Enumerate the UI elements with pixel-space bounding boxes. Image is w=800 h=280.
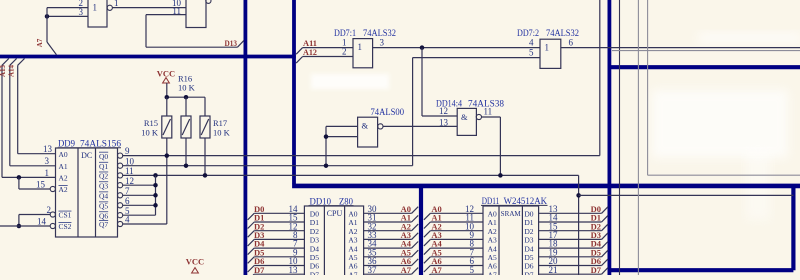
svg-text:D5: D5 <box>310 253 319 262</box>
svg-text:1: 1 <box>358 42 363 52</box>
wire VCC down to pullup rail <box>166 83 168 97</box>
svg-text:D4: D4 <box>310 244 319 253</box>
bus entry A7 (right of DD10) <box>412 268 419 275</box>
bus entry D7 (left of DD10) <box>248 274 255 280</box>
wire net Q2 (DD9 pin11 to x=578) <box>123 174 579 176</box>
DD9 output bubble Q4 <box>118 193 123 198</box>
DD9 pin 6 wire <box>123 204 156 206</box>
resistor R17 <box>200 116 210 138</box>
svg-text:A1: A1 <box>59 162 68 171</box>
svg-text:9: 9 <box>125 146 130 156</box>
svg-text:12: 12 <box>439 106 448 116</box>
svg-text:A6: A6 <box>348 262 357 271</box>
svg-text:A7: A7 <box>431 265 442 275</box>
svg-text:D0: D0 <box>310 210 319 219</box>
bus entry D0 (right of DD11) <box>602 207 608 214</box>
wire net Q1 (DD9 pin10 to x=412) <box>123 165 413 167</box>
chip DD9 body <box>56 148 118 237</box>
bus: vertical data bus right of DD11 (x=609) <box>608 0 612 275</box>
junction Q2/tie vertical <box>153 173 158 178</box>
wire DD11 A5 <box>430 256 483 258</box>
svg-text:74ALS00: 74ALS00 <box>371 108 405 118</box>
svg-text:6: 6 <box>125 196 130 206</box>
svg-text:Q6: Q6 <box>99 211 108 220</box>
svg-text:1: 1 <box>114 0 119 8</box>
svg-text:A1: A1 <box>348 218 357 227</box>
junction Q2 branch right <box>576 193 581 198</box>
wire tie /CS1 to /CS2 <box>18 215 20 227</box>
svg-text:10 K: 10 K <box>141 128 159 138</box>
junction input tie <box>324 134 329 139</box>
wire net Q1 horizontal to DD7:2 pin 5 <box>413 57 540 59</box>
svg-text:5: 5 <box>470 265 475 275</box>
chip DD9 inner dividers <box>77 148 79 237</box>
gate DD7:1 body <box>353 39 373 68</box>
wire DD10 D1 <box>254 221 304 223</box>
svg-text:A7: A7 <box>36 38 44 47</box>
wire long vertical x=619.5 <box>619 0 621 275</box>
wire DD11 D0 <box>539 212 602 214</box>
bus entry D2 (left of DD10) <box>248 231 255 238</box>
DD9 pin 5 wire <box>123 214 156 216</box>
svg-text:3: 3 <box>45 156 50 166</box>
gray horizontal line y=50.6 <box>612 50 800 52</box>
bus entry A6 (right of DD10) <box>412 259 419 266</box>
svg-text:Q1: Q1 <box>99 162 108 171</box>
bus entry D1 (right of DD11) <box>602 215 608 222</box>
wire DD11 A3 <box>430 238 483 240</box>
wire pullup rail horizontal <box>167 96 205 98</box>
wire DD11 D5 <box>539 256 602 258</box>
svg-text:74ALS32: 74ALS32 <box>546 29 579 39</box>
svg-text:4: 4 <box>125 215 130 225</box>
junction rail/R16 <box>184 95 189 100</box>
svg-text:Q5: Q5 <box>99 202 108 211</box>
svg-text:D4: D4 <box>524 244 533 253</box>
gate G1 output bubble <box>107 5 112 10</box>
bus entry A0 (right of DD10) <box>412 207 419 214</box>
bus entry A0 (left of DD11) <box>424 213 431 220</box>
svg-text:R17: R17 <box>213 118 227 128</box>
svg-text:11: 11 <box>125 166 134 176</box>
wire DD10 D4 <box>254 247 304 249</box>
DD9 pin 7 wire <box>123 194 156 196</box>
bus entry A2 (left of DD11) <box>424 231 431 238</box>
wire vertical x=17.7 down to DD9 pin 13 <box>17 65 19 153</box>
svg-text:D6: D6 <box>310 262 319 271</box>
svg-text:CS1: CS1 <box>59 211 72 220</box>
chip DD10 inner dividers <box>323 206 325 275</box>
wire tie Q2..Q6 vertical <box>155 175 157 215</box>
wire DD14:4 pin 11 output <box>482 116 501 118</box>
wire DD11 A1 <box>430 221 483 223</box>
wire net Q0 (DD9 pin9 to far right) <box>123 155 600 157</box>
chip DD11 body <box>483 206 539 280</box>
wire 74ALS00 input 2 <box>326 136 358 138</box>
gate DD14:4 body <box>457 108 476 135</box>
bus entry D13 (diagonal) <box>238 41 244 48</box>
VCC triangle (bottom) <box>192 268 199 273</box>
wire vertical from pin 11 down <box>145 15 147 48</box>
svg-text:21: 21 <box>549 265 558 275</box>
DD9 pin 12 wire <box>123 184 156 186</box>
wire DD11 D4 <box>539 247 602 249</box>
bus entry A1 (left of DD11) <box>424 222 431 229</box>
svg-text:VCC: VCC <box>186 257 204 267</box>
junction on G1 input wires <box>45 14 50 19</box>
junction rail/R15 <box>165 95 170 100</box>
wire DD7:1 pin 1 <box>303 47 353 49</box>
wire net Q2 horizontal to right bus <box>579 194 794 196</box>
svg-text:15: 15 <box>36 179 46 189</box>
svg-text:A0: A0 <box>488 210 497 219</box>
bus entry D5 (left of DD10) <box>248 257 255 264</box>
svg-text:D6: D6 <box>524 262 533 271</box>
bus entry A4 (right of DD10) <box>412 242 419 249</box>
junction Q0/R15-pin4 vertical <box>165 153 170 158</box>
svg-text:A12: A12 <box>303 47 317 57</box>
bus: horizontal address bus top-left <box>0 55 296 59</box>
wire DD11 A7 <box>430 273 483 275</box>
DD9 output bubble Q1 <box>118 163 123 168</box>
svg-text:A4: A4 <box>348 244 357 253</box>
DD9 pin 2 wire (/CS1) <box>19 214 50 216</box>
bus entry D0 (left of DD10) <box>248 213 255 220</box>
gray sheet bottom edge y=175.2 <box>648 174 800 176</box>
white-out blob (below DD7:1) <box>311 74 389 89</box>
svg-text:D2: D2 <box>310 227 319 236</box>
DD9 output bubble Q5 <box>118 203 123 208</box>
wire DD10 D6 <box>254 265 304 267</box>
bus entry A7 (diagonal to horizontal bus) <box>47 42 57 55</box>
svg-text:A7: A7 <box>401 265 412 275</box>
svg-text:5: 5 <box>529 48 534 58</box>
wire DD11 A2 <box>430 230 483 232</box>
wire DD10 A1 <box>364 221 412 223</box>
resistor R15 <box>162 116 172 138</box>
svg-text:1: 1 <box>545 43 550 53</box>
gate 74ALS00 output bubble <box>378 124 383 129</box>
wire DD14:4 pin 12 <box>422 115 457 117</box>
white-out blob (top right strip) <box>698 32 800 44</box>
bus entry A5 (right of DD10) <box>412 250 419 257</box>
svg-text:D3: D3 <box>524 236 533 245</box>
svg-text:SRAM: SRAM <box>501 210 522 218</box>
svg-text:A3: A3 <box>488 236 497 245</box>
wire R17 bottom to net Q2 <box>204 138 206 175</box>
bus entry A13 <box>10 59 17 66</box>
svg-text:D7: D7 <box>254 265 265 275</box>
wire DD11 D7 <box>539 273 602 275</box>
svg-text:D7: D7 <box>591 265 602 275</box>
svg-text:10 K: 10 K <box>178 83 196 93</box>
VCC triangle <box>163 78 170 83</box>
svg-text:CPU: CPU <box>327 209 343 218</box>
bus entry A12 <box>296 57 302 64</box>
junction tie/pin12 <box>153 183 158 188</box>
svg-text:R15: R15 <box>144 118 158 128</box>
svg-text:D1: D1 <box>310 218 319 227</box>
svg-text:A7: A7 <box>488 270 497 275</box>
bus entry A3 (left of DD11) <box>424 239 431 246</box>
bus entry A5 (left of DD11) <box>424 257 431 264</box>
bus entry A14 <box>18 59 25 66</box>
junction tie/pin6 <box>153 203 158 208</box>
bus: vertical address bus between DD10 and DD11 (x=421) <box>419 185 423 275</box>
bus entry D1 (left of DD10) <box>248 222 255 229</box>
bus entry A1 (right of DD10) <box>412 215 419 222</box>
junction tie/pin7 <box>153 193 158 198</box>
svg-text:D2: D2 <box>524 227 533 236</box>
DD9 pin 15 bubble <box>50 186 55 191</box>
svg-text:D1: D1 <box>524 218 533 227</box>
bus entry D2 (right of DD11) <box>602 224 608 231</box>
wire DD10 D7 <box>254 273 304 275</box>
wire DD10 D2 <box>254 230 304 232</box>
svg-text:13: 13 <box>439 117 449 127</box>
svg-text:6: 6 <box>569 38 574 48</box>
chip DD10 title underline <box>309 205 354 207</box>
svg-text:10: 10 <box>125 156 135 166</box>
svg-text:A4: A4 <box>488 244 497 253</box>
svg-text:4: 4 <box>529 38 534 48</box>
svg-text:2: 2 <box>47 205 52 215</box>
chip U2 body fragment (cut off at top) <box>186 0 206 28</box>
wire vertical from G1 inputs down <box>46 8 48 42</box>
wire DD11 D3 <box>539 238 602 240</box>
chip DD11 title underline <box>481 204 548 206</box>
bus: vertical bus right edge (x=793) <box>791 186 795 270</box>
junction A2//A2 tie <box>17 175 22 180</box>
svg-text:1: 1 <box>45 168 50 178</box>
bus: vertical address bus (x=294) <box>292 0 296 184</box>
svg-text:1: 1 <box>93 3 98 13</box>
gray vertical line x=638.4 <box>637 0 639 275</box>
junction Q2/R17 <box>203 173 208 178</box>
chip DD10 body <box>304 206 363 280</box>
bus entry A7 (left of DD11) <box>424 274 431 280</box>
svg-text:Q0: Q0 <box>99 152 108 161</box>
svg-text:2: 2 <box>342 47 347 57</box>
svg-text:&: & <box>461 112 468 122</box>
bus entry A4 (left of DD11) <box>424 248 431 255</box>
wire gate G1 pin3 <box>47 15 88 17</box>
svg-text:A2: A2 <box>488 227 497 236</box>
wire DD10 D3 <box>254 238 304 240</box>
bus entry D6 (right of DD11) <box>602 259 608 266</box>
wire DD7:1 pin3 to DD7:2 pin4 <box>373 47 540 49</box>
DD9 pin 14 wire (/CS2) <box>0 225 50 227</box>
gate 74ALS00 body <box>358 117 378 147</box>
svg-text:D7: D7 <box>524 270 533 275</box>
wire DD11 A0 <box>430 212 483 214</box>
wire DD11 A6 <box>430 265 483 267</box>
svg-text:A5: A5 <box>488 253 497 262</box>
bus entry D3 (left of DD10) <box>248 239 255 246</box>
svg-text:7: 7 <box>125 186 130 196</box>
wire DD10 A3 <box>364 238 412 240</box>
chip U2 output bubble (top-right, clipped) <box>206 0 211 3</box>
wire horizontal to D13 bus entry <box>146 46 238 48</box>
svg-text:3: 3 <box>79 7 84 17</box>
wire DD11 A4 <box>430 247 483 249</box>
junction Q1/R16 <box>184 163 189 168</box>
white-out blob (erased region, right middle) <box>652 90 788 158</box>
gate G1 body (top-left, cut off at top) <box>88 0 107 27</box>
wire G1 output to U2 pin 10 <box>112 7 186 9</box>
wire DD10 D5 <box>254 256 304 258</box>
svg-text:37: 37 <box>368 265 378 275</box>
svg-text:A0: A0 <box>59 150 68 159</box>
DD9 pin 13 wire (A0) <box>18 153 56 155</box>
bus entry D4 (left of DD10) <box>248 248 255 255</box>
wire DD10 A4 <box>364 247 412 249</box>
svg-text:A13: A13 <box>0 64 7 77</box>
bus entry A11 <box>296 48 302 55</box>
wire DD10 D0 <box>254 212 304 214</box>
bus entry A3 (right of DD10) <box>412 233 419 240</box>
chip DD11 inner dividers <box>498 206 500 275</box>
DD9 output bubble Q2 <box>118 173 123 178</box>
bus entry D6 (left of DD10) <box>248 266 255 273</box>
svg-text:D7: D7 <box>310 270 319 275</box>
junction /CS2 tie <box>17 224 22 229</box>
wire 74ALS00 input 1 <box>326 125 358 127</box>
svg-text:A3: A3 <box>348 236 357 245</box>
wire DD11 D6 <box>539 265 602 267</box>
svg-text:DC: DC <box>81 151 92 160</box>
gray sheet left edge x=647.6 <box>647 0 649 175</box>
svg-text:D13: D13 <box>225 39 238 48</box>
DD9 pin 14 bubble <box>50 223 55 228</box>
svg-text:A1: A1 <box>488 218 497 227</box>
wire DD11 D2 <box>539 230 602 232</box>
junction pin3/pin12 branch <box>420 45 425 50</box>
svg-text:13: 13 <box>289 265 299 275</box>
svg-text:11: 11 <box>172 6 181 16</box>
resistor R16 <box>181 116 191 138</box>
svg-text:A2: A2 <box>59 174 68 183</box>
DD9 pin 15 wire (/A2) <box>19 188 50 190</box>
svg-text:D0: D0 <box>524 210 533 219</box>
DD9 output bubble Q6 <box>118 213 123 218</box>
gate DD7:2 body <box>540 39 561 68</box>
svg-text:D5: D5 <box>524 253 533 262</box>
svg-text:Q2: Q2 <box>99 172 108 181</box>
DD9 output bubble Q7 <box>118 221 123 226</box>
svg-text:A0: A0 <box>348 210 357 219</box>
bus entry D3 (right of DD11) <box>602 233 608 240</box>
bus: horizontal bus (y=186) <box>292 184 800 189</box>
svg-text:3: 3 <box>380 38 385 48</box>
wire DD10 A5 <box>364 256 412 258</box>
svg-text:10 K: 10 K <box>213 128 231 138</box>
wire DD10 A0 <box>364 212 412 214</box>
wire net Q1 vertical up to DD7:2 pin5 <box>412 58 414 166</box>
bus entry D5 (right of DD11) <box>602 250 608 257</box>
svg-text:Q7: Q7 <box>99 220 108 229</box>
svg-text:14: 14 <box>37 216 47 226</box>
svg-text:CS2: CS2 <box>59 222 72 231</box>
svg-text:A6: A6 <box>488 262 497 271</box>
svg-text:11: 11 <box>484 107 493 117</box>
wire 74ALS00 inputs tie vertical <box>325 126 327 165</box>
wire 74ALS00 output to DD14:4 pin 13 <box>383 125 457 127</box>
wire tie A2 to /A2 <box>18 177 20 189</box>
wire vertical junction to DD14:4 pin 12 <box>421 48 423 116</box>
bus entry A2 (right of DD10) <box>412 224 419 231</box>
svg-text:Q4: Q4 <box>99 192 108 201</box>
bus entry D4 (right of DD11) <box>602 242 608 249</box>
DD9 output bubble Q0 <box>118 153 123 158</box>
DD9 pin 1 wire (A2) <box>2 176 56 178</box>
junction inputs to net Q1 <box>324 163 329 168</box>
wire vertical x=9.8 down to DD9 pin 3 <box>9 65 11 166</box>
svg-text:Q3: Q3 <box>99 181 108 190</box>
gate DD14:4 output bubble <box>476 114 481 119</box>
wire gate G1 pin2 <box>47 7 88 9</box>
DD9 pin 3 wire (A1) <box>10 165 56 167</box>
wire DD10 A6 <box>364 265 412 267</box>
wire R16 bottom to net Q1 <box>185 138 187 166</box>
svg-text:A5: A5 <box>348 253 357 262</box>
chip DD9 title underline <box>58 147 122 149</box>
wire U2 pin 11 stub <box>146 14 186 16</box>
svg-text:A2: A2 <box>59 185 68 194</box>
svg-text:A2: A2 <box>348 227 357 236</box>
svg-text:A7: A7 <box>348 270 357 275</box>
bus entry (leftmost, partially off-image) <box>2 59 9 66</box>
svg-text:A14: A14 <box>8 64 16 77</box>
junction pin11/net Q2 <box>498 173 503 178</box>
DD9 pin 4 wire <box>123 223 167 225</box>
bus entry D7 (right of DD11) <box>602 268 608 275</box>
svg-text:&: & <box>362 121 369 131</box>
wire net Q0 vertical up to top edge <box>599 0 601 156</box>
bus: vertical data bus (left, x=245) <box>243 0 247 275</box>
bus: horizontal bus bottom-right (y=270) <box>608 268 794 272</box>
wire DD10 A2 <box>364 230 412 232</box>
white-out blob (right vertical strip) <box>746 150 770 220</box>
wire DD7:2 pin 6 output to right edge <box>561 47 800 49</box>
DD9 output bubble Q3 <box>118 183 123 188</box>
bus: horizontal bus top-right (y=67) <box>608 65 800 69</box>
wire DD7:1 pin 2 <box>303 56 353 58</box>
svg-text:12: 12 <box>125 176 134 186</box>
svg-text:13: 13 <box>43 144 53 154</box>
wire pin 11 vertical down to net Q2 <box>499 117 501 175</box>
svg-text:D3: D3 <box>310 236 319 245</box>
wire DD11 D1 <box>539 221 602 223</box>
DD9 pin 2 bubble <box>50 212 55 217</box>
bus entry A6 (left of DD11) <box>424 266 431 273</box>
wire vertical x=2 down to DD9 pin 1 <box>1 65 3 177</box>
wire R15 bottom / DD9 pin4 vertical <box>166 138 168 224</box>
wire DD10 A7 <box>364 273 412 275</box>
wire net Q2 vertical down (x=578.6) <box>578 175 580 275</box>
